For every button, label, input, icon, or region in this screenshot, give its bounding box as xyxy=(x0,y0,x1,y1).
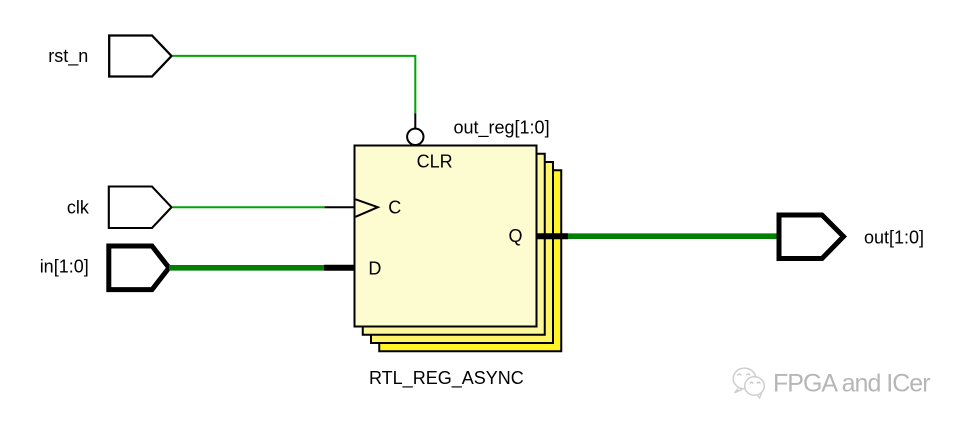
svg-text:in[1:0]: in[1:0] xyxy=(40,256,89,276)
watermark wechat logo xyxy=(733,368,764,398)
input port rst_n xyxy=(48,36,171,77)
svg-text:D: D xyxy=(368,259,381,279)
wire D pin stub (black thick) xyxy=(324,265,356,271)
svg-text:Q: Q xyxy=(509,226,523,246)
wire in[1:0] bus net (green thick) xyxy=(169,265,324,271)
input port in[1:0] (bold bus port) xyxy=(40,246,169,290)
register sheet 4 (back, bright yellow) xyxy=(379,170,561,351)
wire clk net (green thin) xyxy=(173,206,325,208)
register U out_reg main body xyxy=(355,146,537,327)
svg-text:out[1:0]: out[1:0] xyxy=(864,227,924,247)
wire rst_n net (green, to CLR) xyxy=(173,56,416,114)
svg-text:C: C xyxy=(388,198,401,218)
CLR inversion bubble xyxy=(407,129,423,145)
svg-text:out_reg[1:0]: out_reg[1:0] xyxy=(454,118,550,139)
register sheet 3 xyxy=(371,162,553,343)
register sheet 2 xyxy=(363,154,545,335)
svg-text:clk: clk xyxy=(67,198,90,218)
svg-text:RTL_REG_ASYNC: RTL_REG_ASYNC xyxy=(369,368,524,389)
wire CLR pin stub (black vertical) xyxy=(414,114,416,130)
svg-text:FPGA and ICer: FPGA and ICer xyxy=(773,370,930,398)
svg-text:rst_n: rst_n xyxy=(48,46,88,67)
clock triangle on C pin xyxy=(356,199,378,217)
wire out bus net (green thick) xyxy=(568,233,779,239)
output port out[1:0] (bold bus port) xyxy=(779,215,924,259)
input port clk xyxy=(67,187,172,229)
svg-text:CLR: CLR xyxy=(417,151,453,171)
wire clk pin stub (black thin) xyxy=(325,206,355,208)
wire Q pin stub (black thick) xyxy=(536,233,569,239)
